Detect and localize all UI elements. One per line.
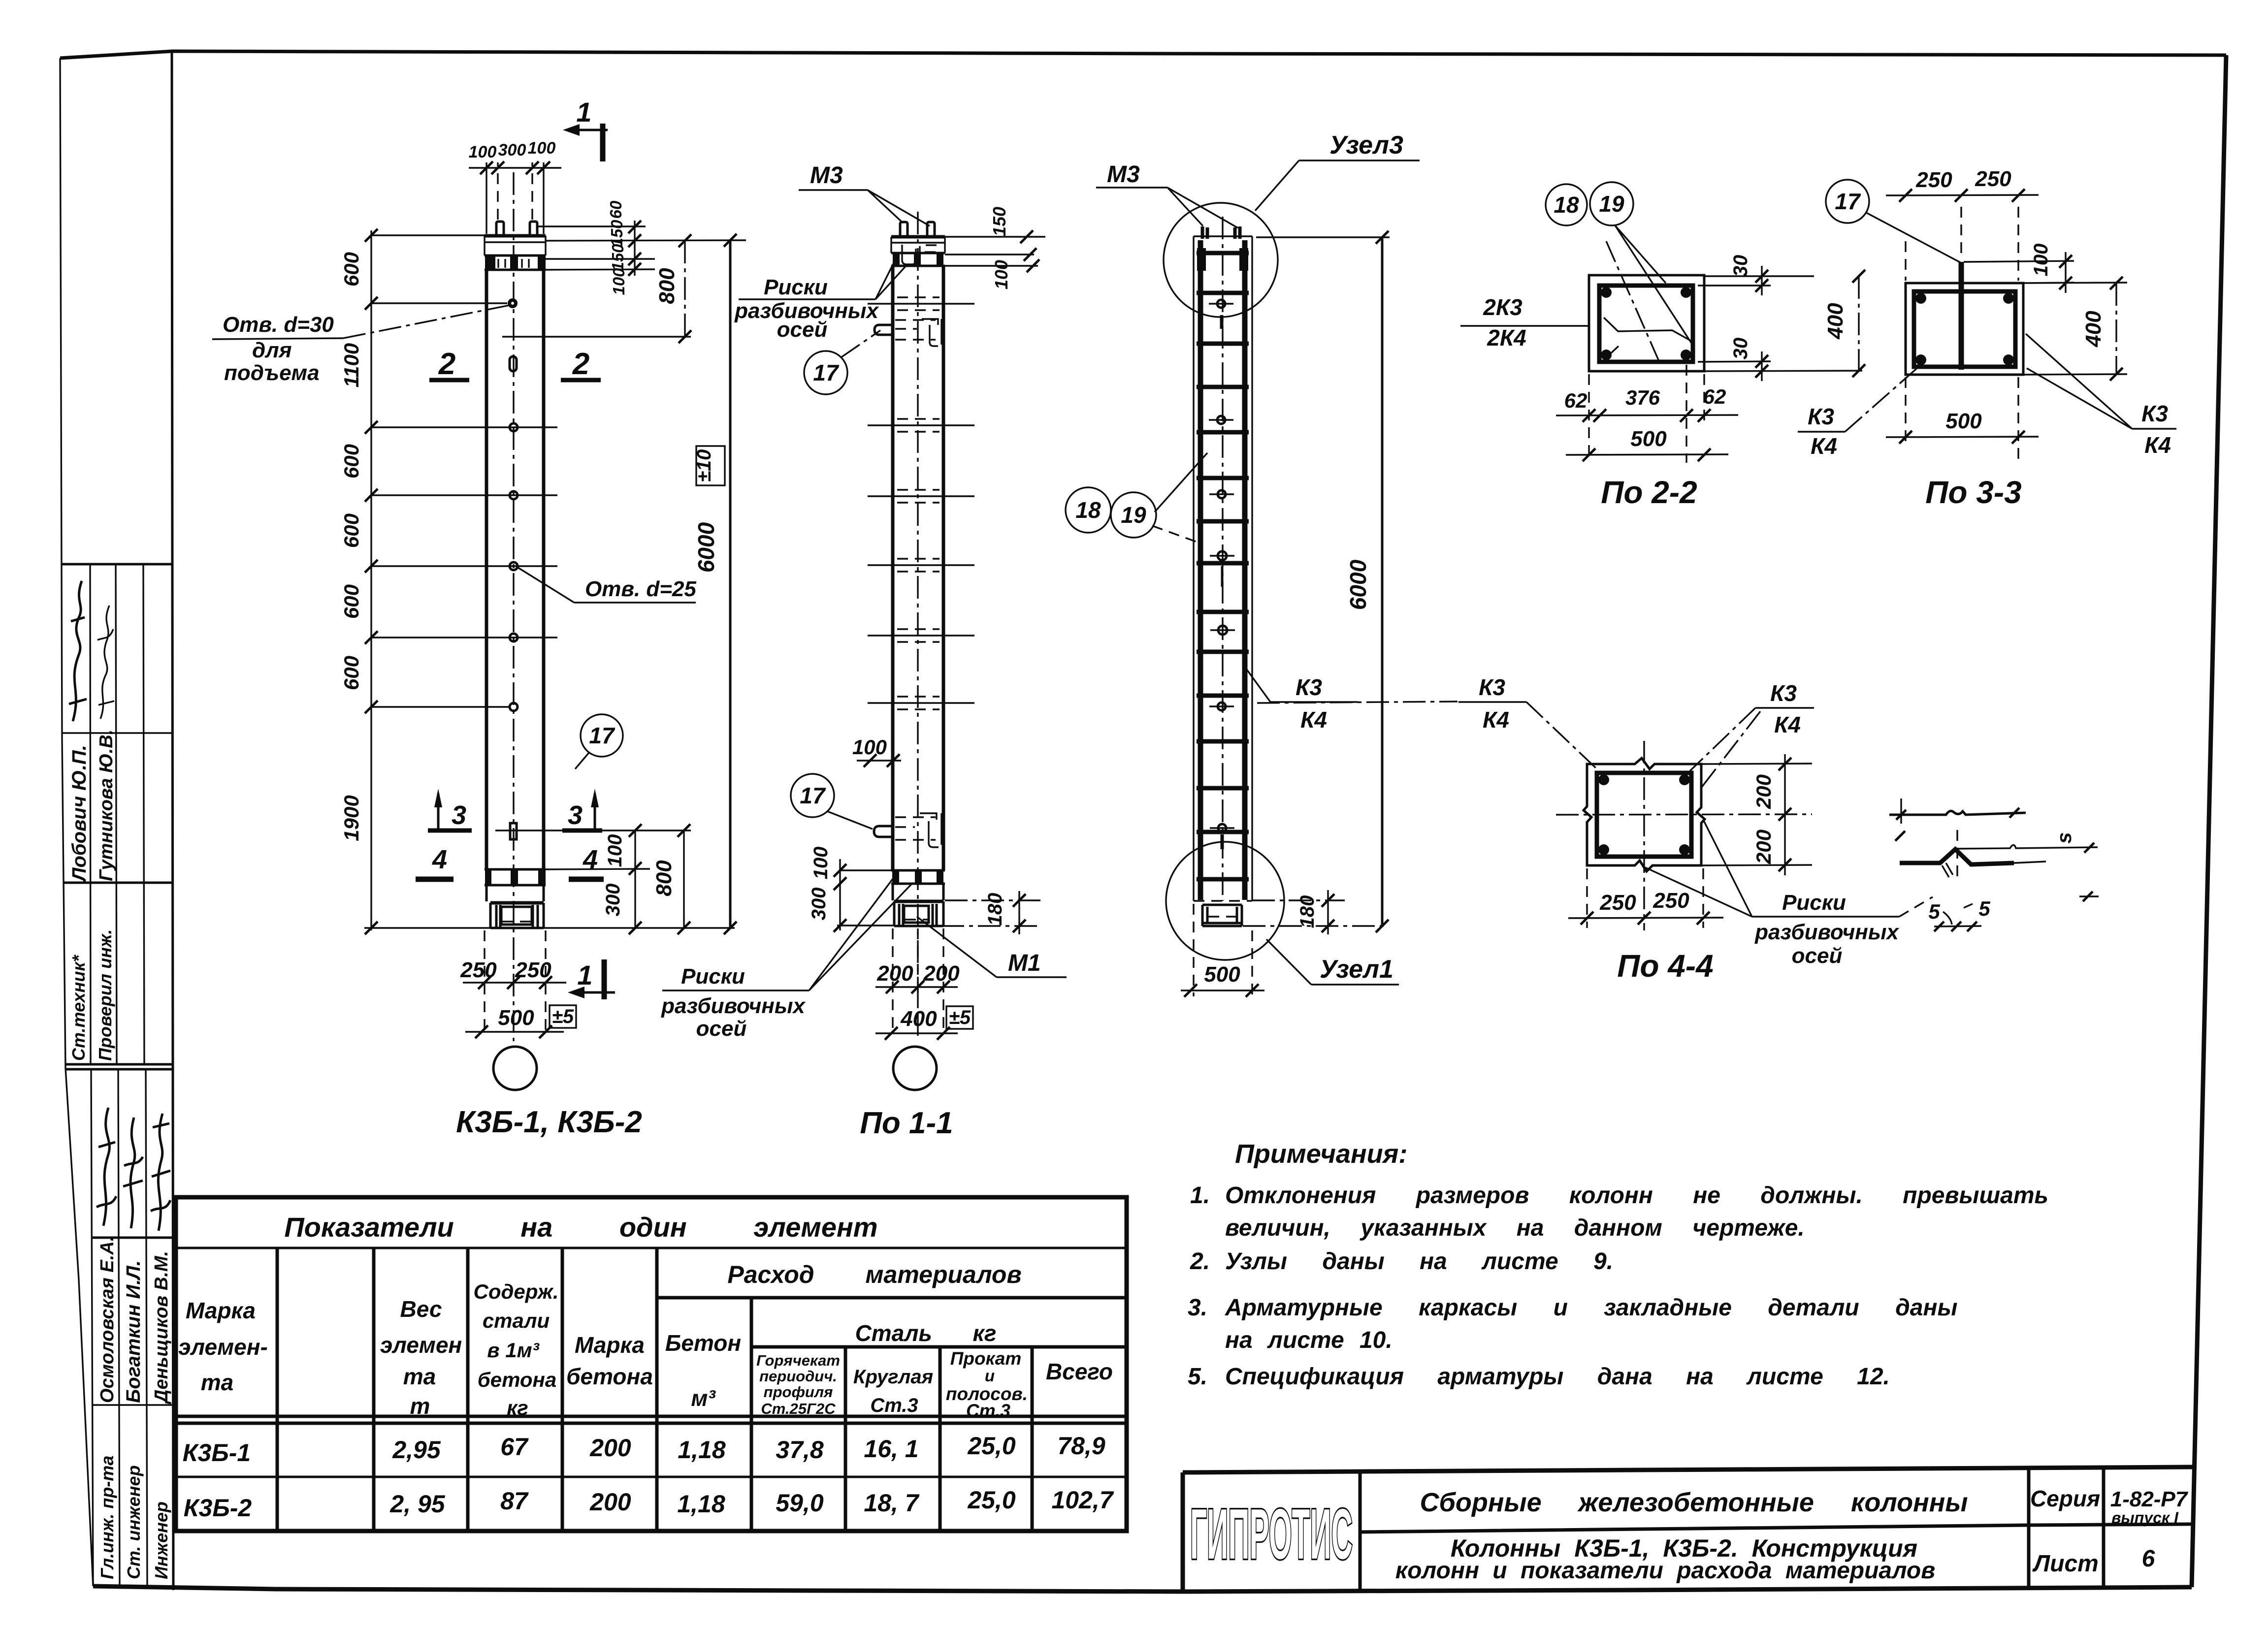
svg-text:Ст.3: Ст.3	[966, 1401, 1010, 1421]
svg-text:180: 180	[984, 893, 1006, 926]
plate top line with break	[1889, 811, 2026, 815]
tolerance box ±10	[696, 446, 725, 485]
svg-text:62: 62	[1564, 389, 1588, 412]
table title row line	[176, 1247, 1127, 1249]
dim 180 extensions	[1243, 900, 1386, 926]
risk marks	[868, 297, 974, 709]
lower stamp table grid	[91, 1069, 173, 1585]
svg-text:Инженер: Инженер	[151, 1501, 171, 1579]
svg-text:500: 500	[1630, 427, 1667, 451]
Uzel3 detail circle	[1164, 203, 1278, 317]
column cap	[891, 235, 945, 239]
svg-text:та: та	[201, 1370, 233, 1395]
svg-text:17: 17	[589, 723, 616, 748]
svg-text:25,0: 25,0	[967, 1486, 1016, 1514]
table data row line	[176, 1476, 1127, 1478]
svg-text:Прокат: Прокат	[950, 1348, 1022, 1369]
svg-text:К3: К3	[1296, 674, 1322, 700]
svg-text:2,95: 2,95	[392, 1436, 441, 1464]
svg-text:5: 5	[1978, 897, 1990, 920]
svg-text:2К4: 2К4	[1487, 325, 1526, 351]
header inner horizontals	[657, 1298, 1127, 1347]
bottom belt band	[485, 869, 546, 885]
dim 500	[1194, 904, 1252, 996]
dim line 250 250	[463, 982, 566, 983]
column base	[893, 884, 943, 900]
bottom dim extensions	[893, 928, 943, 1035]
top corner welds	[1197, 248, 1206, 271]
svg-text:800: 800	[655, 268, 679, 304]
svg-text:выпуск I: выпуск I	[2111, 1509, 2179, 1527]
svg-text:2: 2	[438, 347, 455, 381]
svg-text:Осмоловская Е.А.: Осмоловская Е.А.	[97, 1236, 118, 1403]
svg-text:400: 400	[900, 1007, 937, 1031]
svg-text:Вес: Вес	[400, 1296, 442, 1322]
column cap	[485, 234, 546, 238]
dashdot leader to sec44	[1526, 702, 1597, 769]
section mark 1 top	[563, 96, 608, 161]
svg-text:800: 800	[652, 860, 676, 896]
svg-text:250: 250	[1599, 891, 1636, 915]
holes with slots	[1209, 300, 1235, 849]
leaders 19	[1615, 225, 1692, 345]
svg-text:Гл.инж. пр-та: Гл.инж. пр-та	[97, 1456, 117, 1579]
right cap extensions	[945, 237, 1045, 266]
dim 180	[941, 900, 1043, 926]
holes d25	[510, 423, 518, 431]
svg-text:200: 200	[589, 1434, 631, 1462]
section mark 3 right	[562, 789, 602, 830]
svg-text:1,18: 1,18	[678, 1436, 726, 1464]
svg-text:17: 17	[813, 360, 840, 385]
svg-text:Риски: Риски	[1782, 891, 1846, 915]
svg-text:±5: ±5	[552, 1006, 574, 1027]
svg-text:К3Б-1, К3Б-2: К3Б-1, К3Б-2	[456, 1105, 642, 1139]
circle 19	[1590, 182, 1633, 225]
svg-text:3.: 3.	[1188, 1295, 1207, 1321]
svg-text:19: 19	[1599, 191, 1624, 217]
svg-text:500: 500	[1945, 409, 1982, 433]
dim 6000 line	[1381, 237, 1384, 926]
circle 17	[1826, 180, 1869, 223]
outer concrete square	[1589, 275, 1704, 371]
svg-text:600: 600	[340, 584, 363, 619]
svg-text:1-82-Р7: 1-82-Р7	[2110, 1487, 2189, 1511]
rebar stub right	[927, 222, 935, 237]
upper stamp signature 1	[69, 581, 87, 721]
svg-text:5: 5	[1928, 900, 1940, 923]
dim 800 line	[684, 241, 685, 337]
svg-text:37,8: 37,8	[776, 1436, 824, 1464]
svg-text:на листе 10.: на листе 10.	[1225, 1327, 1393, 1353]
svg-text:150: 150	[608, 220, 626, 247]
base circle	[493, 1047, 537, 1090]
svg-text:т: т	[410, 1393, 430, 1419]
svg-text:Риски: Риски	[681, 964, 745, 989]
SEC33	[1798, 167, 2176, 510]
К3/К4 label right	[2141, 401, 2171, 458]
center axes	[1556, 741, 1812, 930]
svg-text:17: 17	[1835, 189, 1861, 214]
chain extension lines	[371, 235, 557, 707]
label Отв. d=30	[223, 313, 334, 385]
svg-text:150: 150	[609, 244, 627, 271]
svg-text:6000: 6000	[693, 522, 719, 573]
rebar frame	[1597, 773, 1691, 857]
svg-text:Марка: Марка	[575, 1332, 645, 1358]
NOTES	[1188, 1139, 2048, 1390]
outer concrete square with break notches	[1584, 758, 1705, 871]
3-3 cut line	[495, 830, 691, 831]
svg-text:осей: осей	[696, 1017, 747, 1041]
weld upper edge line	[1957, 845, 2098, 849]
lower stamp signature 2	[123, 1117, 143, 1228]
svg-text:300: 300	[498, 141, 526, 160]
svg-text:Риски: Риски	[764, 275, 828, 299]
svg-text:Гутникова Ю.В.: Гутникова Ю.В.	[96, 730, 117, 881]
circle 18	[1066, 487, 1111, 533]
svg-text:18: 18	[1075, 497, 1101, 523]
dim line 800 lower	[683, 830, 684, 928]
column centerline	[917, 212, 918, 1040]
svg-text:По 4-4: По 4-4	[1617, 948, 1713, 984]
dim 400	[1858, 276, 1859, 371]
svg-text:180: 180	[1296, 895, 1318, 928]
bottom dim 250 250	[1587, 868, 1703, 928]
cage foot	[1202, 905, 1242, 926]
svg-text:Отв. d=25: Отв. d=25	[585, 577, 696, 601]
svg-text:К3: К3	[1770, 680, 1797, 706]
svg-text:стали: стали	[483, 1309, 550, 1332]
svg-text:Узлы даны на листе 9.: Узлы даны на листе 9.	[1225, 1248, 1613, 1275]
VIEW3	[1066, 131, 1597, 997]
svg-text:осей: осей	[777, 318, 828, 342]
svg-text:2: 2	[572, 347, 589, 381]
svg-text:Сталь кг: Сталь кг	[855, 1320, 997, 1346]
svg-text:Проверил инж.: Проверил инж.	[95, 929, 115, 1061]
top belt band	[891, 253, 945, 266]
table verticals	[277, 1248, 1032, 1531]
svg-text:Расход материалов: Расход материалов	[727, 1261, 1021, 1288]
SEC44	[1556, 680, 1933, 984]
svg-text:400: 400	[1823, 303, 1847, 340]
svg-text:Отклонения размеров колонн не: Отклонения размеров колонн не должны. пр…	[1225, 1182, 2048, 1209]
svg-text:осей: осей	[1792, 944, 1843, 968]
chain ticks	[365, 229, 378, 934]
svg-text:25,0: 25,0	[967, 1432, 1016, 1460]
TITLEBLOCK	[1183, 1467, 2194, 1591]
table outer border	[176, 1197, 1127, 1531]
svg-text:200: 200	[876, 961, 913, 986]
lower stamp signature 3	[151, 1114, 170, 1231]
page left border	[60, 58, 93, 1586]
svg-text:59,0: 59,0	[776, 1489, 824, 1517]
М3 leaders	[868, 190, 930, 226]
svg-text:элемен: элемен	[380, 1332, 462, 1358]
cage bottom dashed	[1194, 900, 1252, 901]
svg-text:разбивочных: разбивочных	[661, 994, 806, 1018]
svg-text:16, 1: 16, 1	[864, 1435, 918, 1463]
svg-text:600: 600	[340, 656, 363, 690]
left dim 100/300	[839, 859, 841, 930]
svg-text:К4: К4	[1774, 712, 1801, 737]
svg-text:19: 19	[1121, 502, 1146, 528]
svg-text:Лист: Лист	[2032, 1551, 2099, 1577]
position circle 17 lower	[791, 774, 834, 817]
lifting hole d30	[508, 298, 518, 308]
data row 1	[183, 1432, 1105, 1467]
left dimension chain line	[370, 230, 372, 930]
svg-text:3: 3	[452, 800, 466, 830]
svg-text:Деньщиков В.М.: Деньщиков В.М.	[151, 1251, 172, 1405]
position circle 17 upper	[804, 351, 847, 394]
svg-text:Ст.25Г2С: Ст.25Г2С	[761, 1400, 836, 1417]
svg-text:и: и	[985, 1367, 995, 1385]
table header double line	[176, 1416, 1127, 1423]
corner bars	[1598, 774, 1609, 785]
svg-text:17: 17	[800, 783, 826, 808]
svg-text:6000: 6000	[1345, 559, 1371, 610]
dim line 500	[465, 1031, 564, 1032]
svg-text:По 2-2: По 2-2	[1601, 475, 1697, 510]
position circle 17	[581, 714, 623, 757]
cap dim line	[634, 221, 635, 276]
upper stamp signature 2	[97, 606, 114, 719]
svg-text:Всего: Всего	[1046, 1359, 1113, 1384]
bottom belt band	[891, 870, 945, 884]
section mark 4 right	[569, 845, 604, 879]
svg-text:в 1м³: в 1м³	[487, 1339, 539, 1362]
svg-text:К4: К4	[1300, 707, 1327, 733]
leaders 18 19	[1155, 453, 1207, 512]
svg-text:элемен-: элемен-	[178, 1334, 268, 1360]
hole slot	[510, 356, 517, 371]
dim 200 200	[1784, 754, 1785, 875]
svg-text:1,18: 1,18	[677, 1490, 725, 1518]
dim 30 bottom	[1761, 351, 1762, 381]
svg-text:Арматурные каркасы и закладные: Арматурные каркасы и закладные детали да…	[1225, 1295, 1957, 1321]
svg-text:200: 200	[589, 1488, 631, 1516]
dim line 62 376 62	[1556, 415, 1738, 415]
bottom dim extensions	[1589, 365, 1704, 463]
svg-text:376: 376	[1625, 386, 1660, 409]
svg-text:разбивочных: разбивочных	[1754, 920, 1899, 944]
ГИПРОТИС logo	[1190, 1495, 1353, 1574]
lifting hook upper	[875, 325, 893, 335]
svg-text:бетона: бетона	[566, 1364, 653, 1389]
section mark 1 bottom	[568, 959, 615, 999]
WELD	[1889, 798, 2099, 931]
svg-text:Содерж.: Содерж.	[473, 1280, 558, 1303]
bottom dim 500	[1906, 377, 2018, 463]
svg-text:К4: К4	[2144, 432, 2171, 458]
svg-text:300: 300	[808, 888, 830, 921]
right cap extensions	[502, 226, 746, 337]
svg-text:2.: 2.	[1190, 1248, 1210, 1275]
plate top ticks	[1900, 798, 1902, 824]
svg-text:150: 150	[989, 207, 1009, 236]
top dim line	[469, 167, 561, 168]
К3/К4 label left	[1808, 404, 1837, 459]
dim line 400	[875, 1032, 958, 1034]
VIEW1	[212, 96, 746, 1139]
svg-text:величин, указанных на данном ч: величин, указанных на данном чертеже.	[1225, 1215, 1805, 1241]
svg-text:±5: ±5	[949, 1007, 971, 1028]
svg-text:Богаткин И.Л.: Богаткин И.Л.	[123, 1260, 144, 1403]
lower stamp signature 1	[97, 1108, 116, 1226]
К3/К4 label	[1770, 680, 1801, 737]
svg-text:67: 67	[500, 1433, 529, 1461]
dim line 5 5	[1934, 926, 1981, 926]
svg-text:По 1-1: По 1-1	[860, 1106, 953, 1140]
leaders to belt	[875, 260, 906, 299]
top belt band	[485, 255, 546, 270]
svg-text:Узел3: Узел3	[1329, 131, 1403, 160]
svg-text:87: 87	[500, 1487, 529, 1515]
svg-text:600: 600	[340, 444, 363, 479]
Риски разбивочных осей upper	[734, 275, 879, 342]
cage rungs	[1197, 253, 1249, 879]
svg-text:±10: ±10	[693, 449, 715, 482]
svg-text:200: 200	[923, 961, 960, 986]
svg-text:250: 250	[1975, 167, 2011, 191]
svg-text:1: 1	[576, 96, 591, 128]
svg-text:Круглая: Круглая	[853, 1366, 933, 1388]
К3/К4 label right	[1479, 674, 1509, 733]
page bottom border	[93, 1586, 2192, 1592]
svg-text:s: s	[2052, 832, 2075, 843]
svg-text:1: 1	[577, 959, 592, 990]
column body sides	[486, 270, 544, 869]
svg-text:100: 100	[610, 268, 628, 295]
svg-text:2, 95: 2, 95	[389, 1490, 445, 1518]
dim 400	[2115, 283, 2117, 374]
VIEW2	[661, 162, 1067, 1140]
cage stubs	[1202, 226, 1240, 239]
svg-text:К3: К3	[2141, 401, 2168, 426]
svg-text:ГИПРОТИС: ГИПРОТИС	[1190, 1495, 1353, 1574]
data row 2	[184, 1486, 1114, 1522]
svg-text:78,9: 78,9	[1057, 1432, 1105, 1460]
corner bars	[1915, 293, 1926, 304]
tolerance box ±5	[550, 1005, 576, 1028]
svg-text:Марка: Марка	[186, 1298, 256, 1323]
svg-text:м³: м³	[691, 1385, 716, 1411]
dim line 200 200	[875, 986, 958, 988]
svg-text:30: 30	[1730, 255, 1751, 277]
dim 6000 line	[729, 240, 732, 928]
svg-text:600: 600	[340, 513, 363, 548]
right extensions	[1964, 261, 2127, 375]
SEC22	[1460, 182, 1865, 510]
upper stamp table grid	[62, 564, 173, 1069]
embedded bar 17	[1959, 262, 1964, 370]
svg-text:Горячекат: Горячекат	[756, 1352, 840, 1369]
К3/К4 label left	[1296, 674, 1327, 733]
svg-text:100: 100	[528, 139, 556, 158]
weld bead line	[1900, 849, 2014, 864]
svg-text:500: 500	[498, 1006, 534, 1030]
column foot	[894, 900, 943, 903]
svg-text:18: 18	[1554, 192, 1579, 218]
2К3/2К4 label	[1483, 294, 1526, 351]
column foot	[490, 901, 544, 905]
weld hatch	[1942, 863, 1953, 877]
svg-text:100: 100	[810, 847, 832, 880]
rebar stub right	[530, 222, 537, 236]
anchor dashed U in cap	[902, 245, 916, 264]
weld axis dash	[1956, 830, 1958, 882]
svg-text:1100: 1100	[340, 343, 363, 387]
svg-text:250: 250	[1652, 889, 1689, 913]
svg-text:Сборные железобетонные колонны: Сборные железобетонные колонны	[1420, 1488, 1968, 1517]
svg-text:колонн и показатели расхода ма: колонн и показатели расхода материалов	[1395, 1558, 1935, 1584]
base circle	[893, 1047, 937, 1090]
lifting hook lower	[874, 826, 893, 837]
svg-text:18, 7: 18, 7	[864, 1489, 919, 1517]
svg-text:Примечания:: Примечания:	[1235, 1139, 1407, 1169]
section mark 3 left	[428, 789, 472, 830]
TABLE	[176, 1197, 1127, 1531]
svg-text:3: 3	[568, 800, 583, 830]
svg-text:Узел1: Узел1	[1320, 955, 1393, 984]
svg-text:К4: К4	[1483, 707, 1509, 733]
cage centerline	[1222, 217, 1223, 901]
svg-text:5.: 5.	[1188, 1364, 1207, 1390]
lower right extensions	[364, 869, 735, 928]
svg-text:М3: М3	[810, 162, 843, 189]
svg-text:Отв. d=30: Отв. d=30	[223, 313, 334, 337]
svg-text:60: 60	[607, 200, 625, 219]
svg-text:600: 600	[340, 252, 363, 287]
rebar stub left	[496, 222, 504, 236]
svg-text:Ст. инженер: Ст. инженер	[124, 1465, 144, 1579]
svg-text:для: для	[252, 338, 292, 362]
Риски разбивочных осей lower	[661, 964, 806, 1041]
svg-text:К3: К3	[1808, 404, 1834, 429]
cage vertical bars	[1200, 240, 1245, 900]
svg-text:6: 6	[2142, 1546, 2155, 1572]
svg-text:1.: 1.	[1190, 1182, 1210, 1209]
title block mid line	[1360, 1524, 2194, 1532]
svg-text:250: 250	[515, 958, 551, 982]
svg-text:К3: К3	[1479, 674, 1505, 700]
dashdot leader to cage	[1257, 702, 1458, 703]
svg-text:К4: К4	[1811, 433, 1837, 459]
svg-text:кг: кг	[507, 1396, 528, 1419]
svg-text:200: 200	[1752, 774, 1775, 809]
cap dim ticks	[1020, 230, 1039, 272]
Uzel1 detail circle	[1166, 842, 1284, 960]
stamp column right edge	[172, 51, 173, 1590]
svg-text:100: 100	[469, 143, 497, 161]
svg-text:профиля: профиля	[764, 1383, 833, 1401]
svg-text:Серия: Серия	[2030, 1486, 2100, 1511]
leader to hole	[518, 568, 574, 603]
rebar frame	[1599, 286, 1693, 362]
bottom extension dashes	[485, 930, 546, 1036]
page right border	[2192, 55, 2226, 1587]
circle 19	[1111, 492, 1156, 538]
svg-text:250: 250	[460, 958, 497, 982]
svg-text:400: 400	[2081, 311, 2106, 348]
svg-text:подъема: подъема	[224, 361, 320, 385]
section mark 4 left	[416, 845, 454, 879]
svg-text:102,7: 102,7	[1051, 1486, 1114, 1514]
svg-text:Лобович Ю.П.: Лобович Ю.П.	[68, 745, 90, 883]
svg-text:та: та	[403, 1364, 436, 1389]
column body sides	[893, 266, 943, 870]
